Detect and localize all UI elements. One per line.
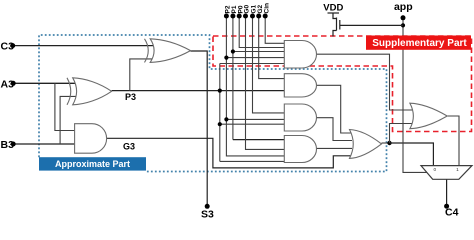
svg-text:app: app [394,1,413,13]
or gate U5 (carry OR) [350,130,382,159]
transistor Q1 power gate [333,13,337,37]
wire AND4 output to OR1 [317,147,353,149]
xor gate X2 (S3) [145,39,191,63]
wire P2 stub to AND1 [226,57,284,59]
and gate U2 (P3G2) [284,74,316,97]
svg-text:0: 0 [433,167,436,173]
label supplementary part banner [366,36,471,50]
node Cin terminal [263,14,268,19]
node G1 terminal [250,14,255,19]
svg-text:C3: C3 [1,41,15,53]
node A3 terminal [11,81,16,86]
svg-text:Cin: Cin [263,3,270,14]
transistor Q1 gate bar [339,20,341,30]
wire P1 stub to AND4 [233,139,284,141]
mux M1 [421,166,472,180]
wire AND1 output to OR2 [317,54,415,110]
and gate G3 [75,124,107,154]
wire C3 input [13,45,153,47]
wire P3 stub to AND1 [220,63,284,65]
node P3-AND3 junction [218,122,222,126]
wire P0 rail to AND1 [239,16,284,48]
node P2-AND3 junction [224,117,228,121]
wire B3 branch to XOR P3 [60,96,76,144]
wire G1 rail to AND3 [253,16,288,113]
wire B3 input [13,143,78,145]
wire XOR S3 output down to S3 [191,51,208,206]
node G2 terminal [256,14,261,19]
and gate U3 (P3P2G1) [284,104,316,131]
node B3 terminal [11,142,16,147]
wire P3 stub to AND3 [220,123,284,125]
node P3 rail junction on P3 wire [218,89,222,93]
svg-text:G0: G0 [244,4,251,13]
wire G0 rail to AND4 [246,16,285,149]
wire OR2 output to MUX input 1 [447,116,459,166]
svg-text:P3: P3 [125,92,136,102]
wire P3 stub to AND4 [220,160,284,162]
approximate part dotted boundary [39,35,387,172]
supplementary part dashed boundary [213,36,472,132]
wire P3 branch up to XOR S3 [130,59,153,91]
node P2 terminal [224,14,229,19]
label approximate part banner [39,157,146,170]
node S3 terminal [205,204,210,209]
wire MUX output to C4 [446,179,448,206]
wire G3 output routed under AND4 to OR1 [107,138,352,168]
node OR1 output junction [387,141,391,145]
node app gate junction [401,23,405,27]
wire P1 stub to AND1 [233,51,284,53]
xor gate X1 (P3) [67,78,112,105]
svg-text:Approximate Part: Approximate Part [55,159,130,169]
power VDD rail [328,12,340,14]
wire app select line [403,18,427,172]
svg-text:VDD: VDD [323,3,343,14]
node P2-AND1 junction [224,56,228,60]
svg-text:S3: S3 [201,209,214,219]
or gate U6 (supplementary OR) [410,103,447,129]
wire AND3 output to OR1 [317,118,353,141]
wire G2 rail to AND2 [259,16,285,79]
and gate U4 (P3P2P1G0) [284,136,316,163]
svg-text:1: 1 [456,167,459,173]
wire OR1 output [382,142,390,144]
wire P3 rail [219,64,221,162]
wire P3 output to AND2 [112,90,285,92]
svg-text:G3: G3 [123,141,135,151]
wire junction to MUX input 0 [390,143,434,166]
wire junction up to OR2 input [390,124,415,144]
node P1 terminal [230,14,235,19]
node app terminal [401,15,406,20]
svg-text:B3: B3 [1,139,15,151]
node C3 terminal [10,43,15,48]
node C4 terminal [444,204,449,209]
wire transistor gate to app [340,24,403,26]
node P1-AND1 junction [231,49,235,53]
svg-text:A3: A3 [1,78,15,90]
wire A3 branch to AND G3 [55,83,78,130]
and gate U1 (5-input supplementary product) [284,41,316,69]
svg-text:Supplementary Part: Supplementary Part [372,38,467,49]
wire A3 input [13,82,78,84]
wire Cin rail to AND1 [265,16,284,43]
node G0 terminal [243,14,248,19]
wire P2 stub to AND3 [226,118,284,120]
wire AND2 output to OR1 [317,85,353,133]
wire P2 rail [226,16,284,156]
node P0 terminal [237,14,242,19]
wire P1 rail [232,16,234,140]
svg-text:C4: C4 [445,207,459,219]
